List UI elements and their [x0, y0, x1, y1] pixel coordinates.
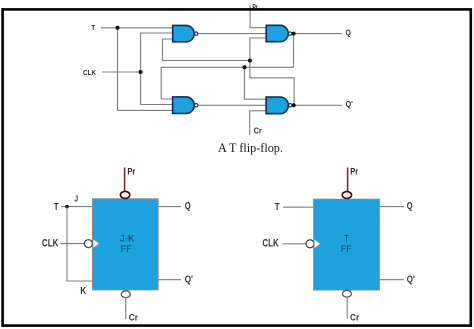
svg-text:K: K [80, 286, 87, 297]
wire Q (JK) [158, 206, 181, 208]
nand gate G2 [173, 97, 195, 114]
svg-text:Q: Q [346, 28, 351, 37]
svg-text:Q: Q [407, 201, 413, 212]
wire Pr (TFF) [347, 168, 349, 192]
clock bubble (TFF) [306, 240, 314, 248]
svg-text:J-K: J-K [120, 234, 136, 244]
svg-text:CLK: CLK [83, 68, 97, 77]
svg-text:Cr: Cr [350, 312, 360, 323]
wire T lead [101, 27, 173, 29]
svg-text:FF: FF [341, 244, 352, 254]
wire K branch [67, 207, 93, 281]
node Q' [292, 103, 296, 107]
svg-text:CLK: CLK [262, 238, 279, 250]
wire T lead (JK) [62, 206, 93, 208]
svg-text:Cr: Cr [129, 312, 139, 323]
svg-text:Pr: Pr [127, 167, 135, 177]
wire feedback Q to gate2 top input [161, 34, 293, 99]
wire Q' output [294, 104, 342, 106]
nand gate G1 [173, 25, 194, 41]
svg-text:FF: FF [121, 244, 132, 254]
svg-text:T: T [344, 234, 349, 244]
node Q [292, 32, 296, 36]
preset bubble (TFF) [342, 192, 351, 199]
wire CLK lead (TFF) [283, 243, 307, 245]
svg-text:T: T [91, 23, 95, 32]
wire T lead (TFF) [283, 206, 314, 208]
body J-K FF [93, 199, 159, 290]
wire Cr (TFF) [346, 297, 348, 319]
wire Q' (JK) [158, 279, 181, 281]
wire Cr (JK) [125, 298, 127, 319]
svg-text:Q': Q' [185, 274, 193, 285]
clock bubble (JK) [84, 240, 92, 248]
nand gate G3 [266, 25, 288, 41]
wire Q' (TFF) [379, 279, 404, 281]
wire gate1 output to gate3 input [198, 33, 267, 35]
wire gate3 bottom input from node A [250, 38, 294, 105]
wire CLK lead (JK) [61, 243, 85, 245]
wire CLK riser [141, 33, 173, 105]
wire Q (TFF) [379, 206, 404, 208]
wire Q output [294, 33, 342, 35]
svg-text:Q: Q [185, 201, 191, 212]
clock wedge (JK) [93, 239, 99, 248]
wire Cr input [250, 111, 267, 135]
body T FF [314, 199, 380, 290]
svg-text:Q': Q' [346, 100, 354, 109]
clear bubble (JK) [121, 291, 130, 298]
wire gate2 output to gate4 input [198, 104, 266, 106]
preset bubble (JK) [120, 191, 129, 198]
svg-text:Pr: Pr [350, 167, 358, 177]
node A [248, 59, 252, 63]
svg-text:CLK: CLK [42, 238, 59, 250]
svg-text:J: J [74, 194, 78, 204]
wire Pr (JK) [124, 168, 126, 192]
svg-text:T: T [275, 202, 280, 213]
node T split [65, 205, 69, 209]
svg-text:Q': Q' [407, 274, 415, 285]
svg-text:Cr: Cr [254, 127, 263, 136]
wire feedback Q' to gate1 bottom input [163, 39, 250, 61]
node CLK junction [139, 70, 143, 74]
svg-text:T: T [54, 202, 59, 213]
clock wedge (TFF) [314, 239, 320, 248]
clear bubble (TFF) [342, 290, 351, 297]
node B [243, 65, 247, 69]
wire Pr input [250, 6, 266, 28]
svg-text:A T flip-flop.: A T flip-flop. [218, 141, 283, 155]
wire CLK lead [102, 71, 141, 73]
wire T riser down [118, 28, 173, 111]
nand gate G4 [266, 97, 288, 114]
node T junction [116, 26, 120, 30]
wire node B down to gate4 top input [245, 67, 267, 99]
